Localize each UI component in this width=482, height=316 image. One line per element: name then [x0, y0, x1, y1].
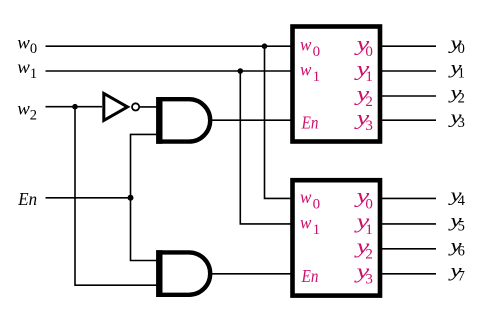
svg-text:En: En — [301, 266, 319, 286]
svg-text:w: w — [17, 32, 30, 52]
svg-text:4: 4 — [458, 193, 466, 209]
svg-text:0: 0 — [313, 44, 321, 60]
svg-text:2: 2 — [458, 91, 465, 107]
svg-text:w: w — [300, 35, 311, 55]
svg-text:w: w — [300, 212, 311, 232]
svg-text:w: w — [17, 57, 30, 77]
svg-text:0: 0 — [458, 41, 465, 57]
svg-text:5: 5 — [458, 219, 465, 235]
svg-text:1: 1 — [313, 222, 321, 238]
svg-text:0: 0 — [30, 41, 37, 57]
svg-text:En: En — [301, 113, 319, 133]
svg-text:En: En — [17, 189, 37, 209]
svg-text:3: 3 — [458, 115, 465, 131]
svg-text:w: w — [300, 59, 311, 79]
svg-text:7: 7 — [458, 269, 465, 285]
svg-text:2: 2 — [30, 108, 37, 124]
svg-text:1: 1 — [313, 69, 321, 85]
svg-text:3: 3 — [365, 118, 373, 134]
svg-text:3: 3 — [365, 272, 373, 288]
svg-text:w: w — [17, 99, 30, 119]
svg-text:0: 0 — [365, 196, 373, 212]
svg-text:1: 1 — [30, 66, 37, 82]
svg-text:6: 6 — [458, 244, 465, 260]
svg-text:0: 0 — [313, 196, 321, 212]
svg-text:w: w — [300, 187, 311, 207]
svg-text:1: 1 — [458, 66, 465, 82]
